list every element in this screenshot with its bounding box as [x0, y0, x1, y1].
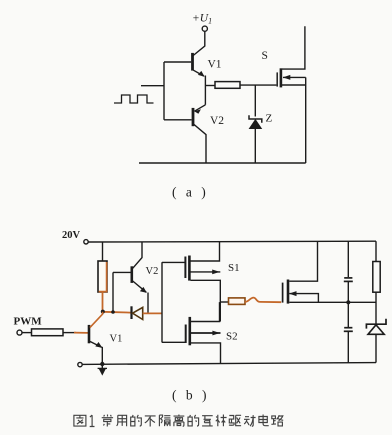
caption char 补 — [216, 415, 227, 427]
mosfet S drain — [282, 26, 305, 69]
svg-text:Z: Z — [266, 113, 273, 125]
label S1 — [228, 262, 240, 274]
mosfet S channel bar — [280, 68, 283, 87]
wire resistor to V1 base (highlighted) — [63, 332, 88, 334]
caption char 不 — [145, 416, 156, 427]
bottom rail (a) — [139, 162, 306, 164]
transistor V1 — [193, 53, 205, 77]
wire V2 base — [164, 119, 192, 121]
svg-text:( a ): ( a ) — [172, 185, 209, 200]
supply terminal +U1 — [202, 26, 207, 31]
diode D (speed-up) — [132, 306, 163, 319]
mosfet S source down wire — [305, 77, 307, 163]
caption char 隔 — [159, 415, 170, 426]
wire V1 base — [164, 61, 191, 63]
resistor R base — [32, 329, 64, 336]
mosfet output Q — [283, 242, 376, 304]
resistor R right — [373, 262, 380, 293]
junction dot right node — [346, 300, 350, 304]
zener diode Z — [249, 115, 262, 163]
resistor R1 (pull-up, highlighted) — [98, 261, 107, 292]
bottom-left terminal — [78, 362, 82, 366]
input bus (bases) — [163, 62, 165, 120]
transistor V1 — [89, 312, 103, 364]
wire input — [22, 332, 31, 334]
capacitor C1 — [344, 278, 353, 282]
wire resistor to output gate (highlighted, with hook) — [245, 298, 281, 303]
svg-text:PWM: PWM — [14, 316, 43, 328]
mosfet S source arrow tab — [283, 75, 306, 80]
svg-text:V2: V2 — [146, 266, 159, 277]
label V1 — [110, 334, 123, 345]
resistor R gate (highlighted) — [229, 298, 246, 305]
caption char 离 — [174, 415, 185, 427]
top rail 20V — [88, 240, 376, 243]
wire V2 base — [113, 271, 131, 273]
label V1 — [208, 59, 222, 71]
caption char 的 — [131, 415, 142, 426]
mosfet S1 — [185, 242, 220, 322]
svg-text:V1: V1 — [208, 59, 222, 71]
ground symbol (arrow) — [98, 365, 107, 376]
caption char 常 — [102, 415, 113, 427]
svg-text:S1: S1 — [228, 262, 240, 274]
label PWM — [14, 316, 43, 328]
label (b) — [172, 388, 210, 403]
caption char 路 — [271, 415, 283, 426]
midpoint wire — [220, 301, 228, 303]
wire C2 to bottom rail — [347, 332, 349, 363]
svg-text:( b ): ( b ) — [172, 388, 210, 403]
input wire — [141, 85, 164, 87]
mosfet S body tab — [282, 84, 306, 86]
wire V2 base drop — [112, 272, 114, 312]
wire resistor to gate — [240, 84, 276, 86]
label S2 — [226, 331, 238, 343]
label (a) — [172, 185, 209, 200]
caption char 电 — [259, 415, 269, 426]
svg-text:+U1: +U1 — [192, 13, 212, 26]
node wire to resistor — [205, 85, 215, 87]
node A wire to diode (highlighted) — [103, 311, 132, 314]
caption char 图 — [74, 415, 86, 426]
gate bus vertical — [161, 262, 163, 342]
transistor V2 — [132, 242, 148, 313]
caption char 的 (2) — [188, 415, 199, 426]
junction dot node A — [101, 310, 105, 314]
caption 图1 常用的不隔离的互补驱动电路 (mock glyph strokes) — [74, 415, 283, 427]
supply terminal 20V — [84, 240, 88, 244]
capacitor C2 — [344, 328, 353, 332]
wire rail to R1 — [102, 242, 104, 261]
transistor V2 — [193, 105, 206, 163]
label V2 — [146, 266, 159, 277]
caption char 驱 — [229, 415, 241, 425]
label 20V — [62, 230, 81, 241]
zener diode right — [366, 319, 386, 363]
mosfet S2 — [186, 302, 221, 363]
caption char 互 — [202, 416, 213, 426]
wire resistor to node — [375, 292, 377, 324]
square wave symbol — [114, 95, 154, 103]
label V2 — [210, 115, 224, 127]
wire R1 to node A (highlighted) — [102, 292, 104, 312]
svg-text:S2: S2 — [226, 331, 238, 343]
resistor R (a) — [215, 82, 240, 89]
wire C1 to node — [347, 282, 349, 327]
label +U1 — [192, 13, 212, 26]
caption char 用 — [117, 415, 127, 426]
svg-text:20V: 20V — [62, 230, 81, 241]
bottom rail — [80, 363, 376, 365]
wire zener tap — [254, 85, 256, 116]
caption char 1 — [90, 415, 95, 426]
label S — [262, 50, 268, 62]
ground junction dot — [100, 362, 104, 366]
caption char 动 — [244, 415, 256, 426]
junction dot V2 base tap — [111, 310, 115, 314]
right column wire — [375, 241, 377, 261]
wire supply to V1 collector — [193, 31, 205, 55]
wire emitters vertical — [204, 76, 206, 105]
svg-text:S: S — [262, 50, 268, 62]
wire bus to S1 gate — [162, 261, 185, 263]
label Z — [266, 113, 273, 125]
capacitor column wire top — [347, 242, 349, 278]
svg-text:V1: V1 — [110, 334, 123, 345]
input terminal PWM — [17, 330, 22, 335]
mosfet S gate bar — [276, 72, 278, 86]
svg-text:V2: V2 — [210, 115, 224, 127]
wire bus to S2 gate — [162, 341, 186, 343]
